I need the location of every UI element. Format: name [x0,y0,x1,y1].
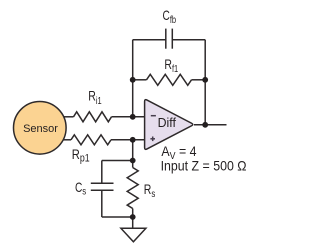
resistor Rp1 [71,135,111,145]
wire Ri1 to op-amp minus input [112,116,146,118]
wire op-amp output [194,124,227,126]
wire Rf1 left lead [133,79,147,81]
wire Cs top lead [101,161,103,184]
wire Cfb to top right [172,39,205,41]
wire right feedback vertical [204,40,206,125]
wire sensor to Rp1 [62,139,71,141]
wire node to Rs [132,161,134,168]
op-amp plus input symbol [150,137,155,142]
resistor Rf1 [147,74,192,85]
op-amp U1 [145,100,193,150]
node junction bottom [130,214,136,220]
wire bottom node to ground [132,217,134,228]
node junction plus input [130,137,136,143]
wire plus input junction down to node [132,140,134,161]
node junction output [202,122,208,128]
node junction Cs Rs top [130,158,136,164]
wire Cs branch bottom to node [102,216,133,218]
node junction Rf1 right [202,77,208,83]
node junction minus input [130,114,136,120]
wire Cs bottom lead [101,190,103,217]
resistor Ri1 [74,112,112,122]
svg-text:Sensor: Sensor [23,123,58,135]
wire Rf1 right lead [192,79,206,81]
ground [121,228,146,242]
wire sensor to Ri1 [62,116,74,118]
op-amp minus input symbol [151,115,156,117]
wire top left to Cfb [133,39,166,41]
wire left feedback vertical [132,40,134,117]
sensor [14,102,67,155]
wire Rs to bottom node [132,209,134,218]
resistor Rs [127,168,138,209]
capacitor Cs [91,183,114,190]
svg-text:Input Z = 500 Ω: Input Z = 500 Ω [161,158,247,174]
capacitor Cfb [166,29,173,49]
node junction Rf1 left [130,77,136,83]
wire Rp1 to op-amp plus input [111,139,145,141]
svg-text:Diff: Diff [158,116,177,130]
wire node to Cs branch top [102,160,133,162]
